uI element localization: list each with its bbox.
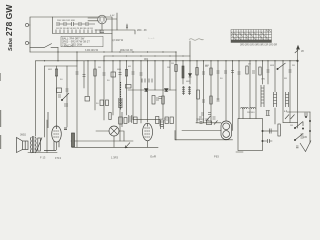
svg-text:360Ω: 360Ω bbox=[20, 134, 26, 137]
svg-text:AB 0R2: AB 0R2 bbox=[160, 119, 169, 122]
svg-text:D·GW: D·GW bbox=[259, 40, 266, 43]
svg-text:NSF–25c: NSF–25c bbox=[64, 45, 75, 48]
svg-text:GxR: GxR bbox=[150, 155, 157, 159]
svg-text:1.3R3: 1.3R3 bbox=[111, 156, 118, 160]
svg-text:1R: 1R bbox=[171, 63, 174, 65]
svg-text:0R2: 0R2 bbox=[144, 59, 149, 61]
svg-text:2R: 2R bbox=[292, 65, 295, 67]
svg-text:4.4V: 4.4V bbox=[110, 15, 115, 17]
svg-text:1R0 ··R 2R0: 1R0 ··R 2R0 bbox=[196, 120, 210, 122]
svg-text:3R0 2R0 1R0 0R5 0R3 2R 1R0 5R: 3R0 2R0 1R0 0R5 0R3 2R 1R0 5R bbox=[240, 44, 277, 47]
svg-text:2R: 2R bbox=[248, 64, 251, 66]
svg-text:F713: F713 bbox=[55, 156, 61, 160]
svg-text:2R0 3R0 1R2 0R6: 2R0 3R0 1R2 0R6 bbox=[57, 20, 76, 22]
svg-text:≈··–·≈: ≈··–·≈ bbox=[148, 37, 155, 40]
svg-text:2R 1R0: 2R 1R0 bbox=[247, 112, 255, 114]
svg-text:1R: 1R bbox=[167, 67, 170, 69]
svg-text:4R: 4R bbox=[128, 66, 131, 68]
svg-text:220: 220 bbox=[303, 136, 308, 139]
svg-text:2R0···38: 2R0···38 bbox=[137, 29, 147, 32]
svg-text:5R: 5R bbox=[284, 78, 287, 80]
svg-text:2R02·1R·38: 2R02·1R·38 bbox=[120, 50, 133, 52]
svg-text:1R: 1R bbox=[290, 125, 293, 127]
svg-text:W: W bbox=[301, 49, 304, 53]
svg-text:(2.302 W: (2.302 W bbox=[113, 38, 124, 42]
svg-text:3·R0 2R1 50: 3·R0 2R1 50 bbox=[85, 50, 99, 52]
svg-text:F·13: F·13 bbox=[40, 156, 46, 160]
svg-text:F63: F63 bbox=[214, 155, 219, 159]
svg-text:2R: 2R bbox=[98, 67, 101, 69]
svg-text:1R 2R 3R 4R 5R 6R 7R 8R 9R 0R: 1R 2R 3R 4R 5R 6R 7R 8R 9R 0R 1R bbox=[56, 28, 93, 30]
